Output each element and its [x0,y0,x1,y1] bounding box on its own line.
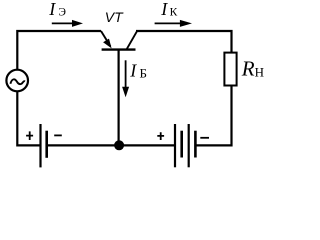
svg-text:К: К [170,7,178,19]
svg-text:R: R [241,57,255,81]
svg-text:Н: Н [255,65,264,80]
svg-text:Б: Б [140,65,147,80]
transistor VT emitter arrowhead (points into base bar, PNP) [103,39,112,49]
label - of battery GB1 [54,134,62,136]
wire left-top: from AC source top up to top-left corner and right to emitter bend [17,31,101,70]
label + of battery GB2 [157,132,164,140]
svg-text:I: I [160,0,168,19]
AC source sine wave [10,79,25,84]
label + of battery GB1 [26,131,33,140]
arrow I_Б direction [125,60,127,88]
transistor VT base bar [102,48,136,50]
transistor VT emitter lead [101,31,110,46]
label - of battery GB2 [200,137,209,139]
wire right-bottom: from resistor down to bottom-right corner and left to battery GB2 [196,86,232,146]
arrow I_К direction [155,22,181,24]
AC source G1 circle [6,70,28,92]
wire base lead: from transistor base bar down to bottom node [117,50,119,145]
battery GB1 plate short thick (negative) [45,131,48,158]
transistor VT collector lead [127,31,137,49]
svg-text:Э: Э [58,7,66,19]
arrow I_Э direction [52,22,74,24]
battery GB2 plate 1 (long thin, positive) [174,124,176,167]
svg-text:VT: VT [105,9,124,25]
battery GB1 plate long thin (positive) [39,124,41,167]
svg-text:I: I [48,0,56,19]
wire top-right: from collector to top-right corner down to resistor [136,31,232,53]
wire left-bottom: from AC source bottom down to bottom-left corner and right to battery GB1 [17,91,39,145]
node junction dot [114,140,124,150]
battery GB2 plate 4 (short thick, negative) [194,131,197,158]
svg-text:I: I [129,60,137,80]
battery GB2 plate 2 (short thick) [180,131,183,158]
battery GB2 plate 3 (long thin) [188,124,190,167]
wire bottom-middle: between battery GB2 and battery GB1 through base node [47,144,175,146]
resistor RH body [224,53,236,86]
